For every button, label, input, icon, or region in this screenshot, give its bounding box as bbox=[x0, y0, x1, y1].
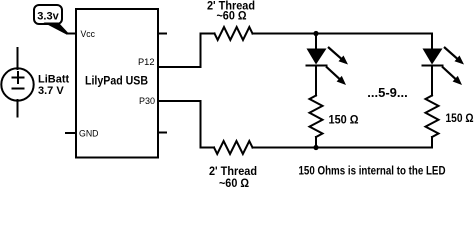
LED D2 triangle bbox=[423, 49, 443, 65]
wire top rail bbox=[253, 33, 433, 35]
LED D1 light arrow 1 head bbox=[339, 56, 349, 65]
wire LED1 anode drop bbox=[315, 34, 317, 50]
LED D2 light arrow 2 head bbox=[453, 76, 462, 85]
svg-text:3.7 V: 3.7 V bbox=[38, 85, 64, 97]
resistor R1 2' Thread ~60 ohm (top) bbox=[215, 27, 253, 40]
junction dot top rail bbox=[313, 31, 318, 36]
wire P30 to bottom resistor bbox=[158, 101, 214, 148]
resistor R3 150 ohm (left branch) bbox=[310, 96, 323, 138]
svg-text:~60 Ω: ~60 Ω bbox=[219, 176, 249, 187]
svg-text:~60 Ω: ~60 Ω bbox=[217, 9, 247, 23]
wire bottom rail bbox=[253, 147, 433, 149]
svg-text:3.3v: 3.3v bbox=[37, 11, 59, 23]
svg-text:150 Ohms is internal to the LE: 150 Ohms is internal to the LED bbox=[299, 164, 446, 178]
LED D1 light arrow 2 head bbox=[337, 76, 346, 85]
svg-text:150 Ω: 150 Ω bbox=[446, 111, 474, 125]
svg-text:LilyPad USB: LilyPad USB bbox=[85, 74, 148, 88]
svg-text:...5-9...: ...5-9... bbox=[367, 85, 407, 100]
pin stub GND (left) bbox=[66, 132, 76, 134]
callout bubble 3.3v bbox=[34, 5, 62, 24]
wire P12 to top rail bbox=[158, 34, 215, 68]
callout tail bbox=[44, 23, 70, 35]
resistor R2 2' Thread ~60 ohm (bottom) bbox=[214, 141, 253, 154]
wire R4 to bottom rail bbox=[431, 137, 433, 148]
LED D1 cathode bar bbox=[307, 65, 327, 67]
junction dot bottom rail bbox=[313, 145, 318, 150]
LilyPad USB box U1 bbox=[76, 9, 158, 158]
pin stub Vcc (left) bbox=[67, 33, 76, 35]
svg-text:150 Ω: 150 Ω bbox=[329, 113, 359, 127]
wire R3 to bottom rail bbox=[315, 137, 317, 148]
wire LED2 to R4 bbox=[431, 66, 433, 96]
LED D1 light arrow 1 shaft bbox=[328, 47, 342, 59]
battery LiBatt circle bbox=[1, 68, 33, 100]
battery minus sign bbox=[13, 88, 24, 90]
wire LED2 anode drop bbox=[431, 34, 433, 50]
svg-text:P30: P30 bbox=[139, 96, 155, 107]
LED D2 light arrow 2 shaft bbox=[442, 67, 456, 80]
wire LED1 to R3 bbox=[315, 66, 317, 96]
battery plus sign bbox=[13, 72, 24, 83]
battery LiBatt top lead bbox=[17, 48, 19, 69]
svg-text:P12: P12 bbox=[138, 57, 155, 68]
LED D2 light arrow 1 shaft bbox=[444, 47, 458, 59]
pin stub bottom-right bbox=[158, 132, 166, 134]
svg-text:LiBatt: LiBatt bbox=[38, 74, 70, 86]
resistor R4 150 ohm (right branch) bbox=[426, 96, 439, 138]
battery LiBatt bottom lead bbox=[17, 100, 19, 117]
LED D1 light arrow 2 shaft bbox=[326, 67, 340, 80]
svg-text:Vcc: Vcc bbox=[81, 29, 96, 40]
pin stub top-right bbox=[158, 33, 166, 35]
LED D1 triangle bbox=[307, 49, 327, 65]
svg-text:GND: GND bbox=[79, 129, 99, 140]
LED D2 light arrow 1 head bbox=[455, 56, 465, 65]
LED D2 cathode bar bbox=[423, 65, 443, 67]
